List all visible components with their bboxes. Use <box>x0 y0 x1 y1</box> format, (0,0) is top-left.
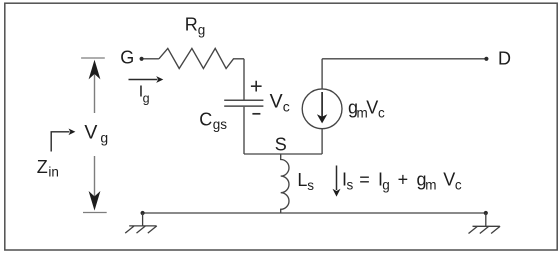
wire S rail <box>244 153 322 155</box>
current source U1 arrow <box>321 92 323 117</box>
capacitor Cgs bottom plate <box>224 105 263 107</box>
svg-text:Z: Z <box>37 157 48 177</box>
svg-text:G: G <box>120 48 134 68</box>
svg-text:S: S <box>275 135 287 155</box>
svg-text:gs: gs <box>213 117 228 132</box>
capacitor Cgs top plate <box>224 99 263 101</box>
Is current arrow <box>336 166 338 191</box>
wire current source top lead <box>321 59 323 89</box>
svg-text:g: g <box>100 129 108 145</box>
inductor Ls <box>281 154 289 213</box>
svg-text:+: + <box>398 170 409 190</box>
svg-text:g: g <box>382 178 390 193</box>
svg-text:m: m <box>425 178 436 193</box>
Vg arrowhead down <box>89 191 101 211</box>
svg-text:g: g <box>143 92 150 106</box>
ground right <box>469 213 501 234</box>
svg-text:V: V <box>270 91 283 113</box>
svg-text:D: D <box>498 49 511 69</box>
svg-text:s: s <box>307 178 314 193</box>
svg-text:c: c <box>283 99 290 115</box>
Vg top tick <box>81 57 105 59</box>
wire capacitor bottom to S rail <box>243 107 245 154</box>
Zin pointer arrow <box>51 132 69 152</box>
Ig current arrow <box>129 79 158 81</box>
svg-text:L: L <box>297 170 307 190</box>
Vg arrowhead up <box>89 60 101 80</box>
svg-text:in: in <box>48 165 59 180</box>
resistor Rg zigzag <box>159 48 244 68</box>
junction dot right <box>484 211 488 215</box>
Vg arrow shaft lower <box>94 156 96 197</box>
node G dot <box>140 57 144 61</box>
junction dot left <box>141 211 145 215</box>
svg-text:V: V <box>443 170 455 190</box>
svg-text:=: = <box>359 170 370 190</box>
svg-text:s: s <box>347 178 354 193</box>
svg-text:V: V <box>84 121 97 143</box>
svg-text:c: c <box>455 178 462 193</box>
svg-text:R: R <box>185 15 198 35</box>
svg-text:V: V <box>366 98 378 118</box>
wire current source bottom lead <box>321 128 323 154</box>
plus sign <box>251 81 262 92</box>
wire G to resistor <box>144 58 159 60</box>
svg-text:g: g <box>198 23 206 38</box>
wire resistor corner down to capacitor top plate <box>243 59 245 100</box>
wire to node D <box>322 58 485 60</box>
wire bottom ground rail <box>143 212 486 214</box>
svg-text:c: c <box>378 105 385 120</box>
svg-text:C: C <box>199 110 212 130</box>
Vg arrow shaft upper <box>94 74 96 113</box>
minus sign <box>252 113 260 115</box>
ground left <box>125 213 157 233</box>
Vg bottom tick <box>83 212 107 214</box>
node D dot <box>484 57 488 61</box>
current source U1 circle <box>302 89 342 129</box>
